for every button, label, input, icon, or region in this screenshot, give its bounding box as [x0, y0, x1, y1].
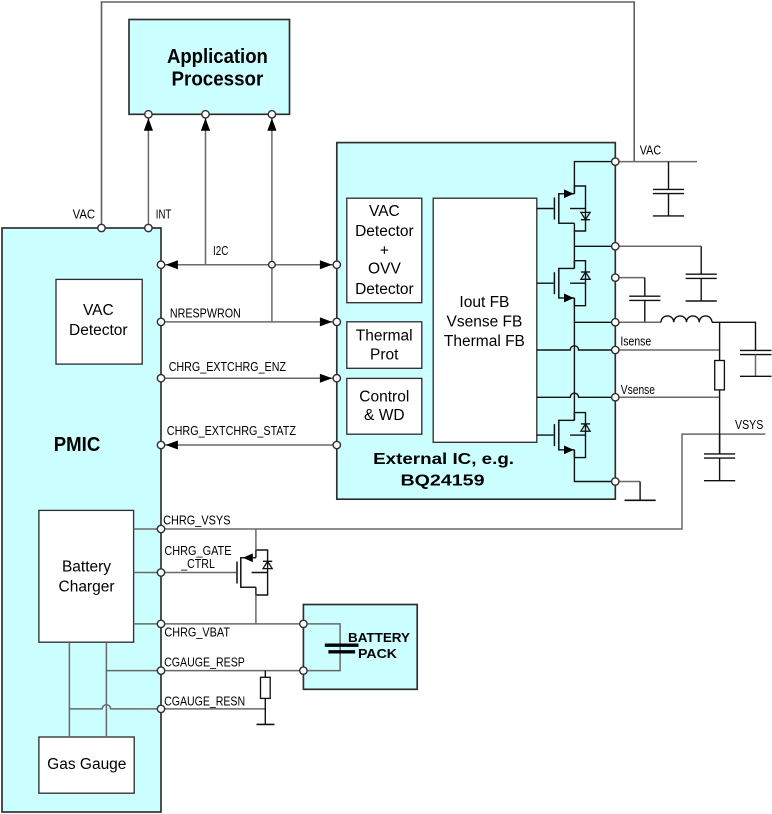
svg-text:CGAUGE_RESN: CGAUGE_RESN	[164, 694, 245, 708]
node STATZ PMIC	[157, 441, 164, 448]
wire AP third drop	[271, 119, 273, 322]
label PMIC	[54, 434, 101, 456]
label Thermal Prot	[356, 327, 413, 363]
wire charger to gauge B	[105, 642, 107, 737]
svg-text:NRESPWRON: NRESPWRON	[170, 306, 241, 320]
svg-text:CHRG_GATE: CHRG_GATE	[164, 544, 231, 558]
label VAC right	[640, 144, 661, 158]
svg-text:Isense: Isense	[620, 335, 651, 349]
svg-text:Prot: Prot	[370, 347, 399, 364]
capacitor C3 plates	[629, 296, 660, 322]
label Vsense	[621, 383, 655, 397]
arrow I2C left	[166, 260, 178, 269]
node CGAUGE_RESN	[157, 705, 164, 712]
wire M2-M3 vertical	[573, 322, 575, 420]
svg-text:+: +	[380, 242, 389, 259]
node I2C PMIC	[157, 261, 164, 268]
svg-text:Control: Control	[359, 389, 409, 406]
wire M1/M2 node stub	[574, 245, 611, 247]
wire node3 to C3	[615, 277, 645, 279]
label _CTRL	[180, 557, 215, 571]
svg-text:VAC: VAC	[73, 208, 96, 222]
node battery pack VBAT	[300, 620, 307, 627]
wire INT to AP	[147, 119, 149, 229]
arrow I2C right	[320, 260, 332, 269]
svg-text:Battery: Battery	[62, 559, 111, 576]
svg-text:CHRG_VSYS: CHRG_VSYS	[163, 513, 230, 527]
svg-text:PACK: PACK	[358, 646, 398, 661]
svg-text:VSYS: VSYS	[735, 418, 763, 432]
capacitor C1 on VAC	[653, 162, 684, 216]
wire battery pack loop	[303, 624, 340, 671]
wire SW node to inductor	[615, 321, 661, 323]
svg-text:Detector: Detector	[69, 322, 128, 339]
svg-text:Vsense: Vsense	[621, 383, 655, 397]
svg-text:Vsense FB: Vsense FB	[447, 313, 523, 330]
node CGAUGE_RESP	[157, 667, 164, 674]
svg-text:PMIC: PMIC	[54, 434, 101, 456]
capacitor C5 on VSYS	[704, 434, 735, 481]
label CHRG_EXTCHRG_STATZ	[167, 424, 297, 438]
node STATZ extIC	[333, 441, 340, 448]
wire C3 top lead	[644, 278, 646, 297]
svg-text:Gas Gauge: Gas Gauge	[47, 756, 126, 773]
control & WD box	[347, 378, 422, 434]
label BATTERY PACK	[348, 630, 410, 661]
wire CHRG_EXTCHRG_STATZ	[161, 444, 337, 446]
svg-text:I2C: I2C	[213, 244, 228, 258]
wire ground drop	[639, 482, 641, 501]
label VAC left	[73, 208, 96, 222]
wire CHRG_EXTCHRG_ENZ	[161, 377, 337, 379]
node ENZ PMIC	[157, 375, 164, 382]
junction I2C x third drop	[269, 261, 276, 268]
wire VAC top loop	[102, 2, 635, 228]
gas gauge box	[39, 737, 134, 793]
svg-text:Processor: Processor	[172, 69, 264, 91]
node SW	[612, 319, 619, 326]
VAC+OVV detector box	[347, 198, 422, 303]
label CHRG_GATE	[164, 544, 231, 558]
svg-text:INT: INT	[156, 208, 172, 222]
label VAC Detector (PMIC)	[69, 302, 128, 339]
svg-text:Detector: Detector	[355, 223, 414, 240]
node Isense	[612, 346, 619, 353]
arrow ENZ right	[320, 374, 332, 383]
wire Isense internal hop	[537, 346, 612, 350]
wire CGAUGE_RESN with hop	[69, 705, 265, 709]
resistor R2	[261, 677, 271, 698]
svg-text:Thermal: Thermal	[356, 327, 413, 344]
wire charger to gauge A	[68, 642, 70, 737]
node NRESPWRON PMIC	[157, 318, 164, 325]
label I2C	[213, 244, 228, 258]
battery symbol plate short	[328, 650, 355, 653]
label CHRG_EXTCHRG_ENZ	[169, 360, 287, 374]
node M1-M2	[612, 243, 619, 250]
label VSYS	[735, 418, 763, 432]
svg-text:CHRG_VBAT: CHRG_VBAT	[164, 626, 230, 640]
transistor M1 (top, VAC switch)	[537, 186, 590, 231]
wire Q1 source lead	[255, 595, 257, 624]
wire CHRG_VBAT	[134, 623, 304, 625]
svg-text:Detector: Detector	[355, 281, 414, 298]
node VAC extIC	[612, 158, 619, 165]
wire M3 source to node	[574, 450, 611, 482]
svg-text:CGAUGE_RESP: CGAUGE_RESP	[164, 656, 245, 670]
wire M2 source to SW node	[574, 298, 611, 322]
label Battery Charger	[59, 559, 115, 596]
wire output vertical	[719, 322, 721, 454]
svg-text:BQ24159: BQ24159	[401, 472, 485, 489]
wire I2C to AP	[205, 119, 207, 265]
node VAC on PMIC top	[98, 224, 105, 231]
Iout/Vsense/Thermal FB box	[433, 198, 537, 442]
node C3 tap	[612, 274, 619, 281]
svg-text:Application: Application	[167, 46, 268, 68]
node INT on PMIC top	[145, 224, 152, 231]
svg-text:BATTERY: BATTERY	[348, 630, 410, 645]
arrow STATZ left	[166, 441, 178, 450]
svg-text:Thermal FB: Thermal FB	[444, 333, 525, 350]
node CHRG_VSYS	[157, 525, 164, 532]
node NRESPWRON extIC	[333, 318, 340, 325]
label CGAUGE_RESP	[164, 656, 245, 670]
wire CGAUGE_RESP	[106, 670, 303, 672]
node AP pin2	[202, 111, 209, 118]
arrow INT up	[144, 118, 153, 131]
label Iout FB Vsense FB Thermal FB	[444, 294, 525, 350]
wire Isense external	[615, 349, 719, 351]
label VAC+OVV detector	[355, 203, 414, 298]
wire R2 bottom lead	[264, 698, 266, 724]
external IC BQ24159 block	[337, 143, 616, 500]
label Isense	[620, 335, 651, 349]
PMIC block	[2, 228, 161, 812]
label INT	[156, 208, 172, 222]
transistor M3 (bottom)	[537, 413, 590, 458]
transistor Q1 battery gate FET	[237, 550, 272, 595]
transistor M2 (middle)	[537, 261, 590, 306]
node AP pin3	[268, 111, 275, 118]
wire Q1 drain lead	[255, 529, 257, 550]
arrow I2C-AP up	[201, 118, 210, 131]
wire VAC rail right	[615, 161, 697, 163]
wire M1 source to M2 drain	[573, 231, 575, 268]
label CHRG_VBAT	[164, 626, 230, 640]
wire R2 top lead	[264, 671, 266, 678]
arrow NRESPWRON right	[320, 317, 332, 326]
node CHRG_VBAT	[157, 620, 164, 627]
wire CHRG_VSYS to VSYS rail	[134, 434, 766, 529]
label Control & WD	[359, 389, 409, 425]
battery charger box	[39, 510, 134, 642]
wire I2C bus	[161, 264, 337, 266]
wire Vsense external	[615, 396, 719, 398]
ground below R2	[257, 723, 275, 725]
svg-text:VAC: VAC	[640, 144, 661, 158]
wire M1 drain to VAC node	[574, 162, 611, 194]
wire Vsense internal hop	[537, 393, 612, 397]
application processor block	[129, 20, 290, 115]
resistor R1 sense	[715, 361, 725, 390]
wire node2 to C2	[615, 245, 701, 247]
capacitor C2	[686, 246, 717, 301]
node CHRG_GATE_CTRL	[157, 569, 164, 576]
svg-text:VAC: VAC	[369, 203, 400, 220]
svg-text:CHRG_EXTCHRG_ENZ: CHRG_EXTCHRG_ENZ	[169, 360, 287, 374]
svg-text:OVV: OVV	[368, 260, 401, 277]
label Gas Gauge	[47, 756, 126, 773]
node AP pin1	[145, 111, 152, 118]
svg-text:CHRG_EXTCHRG_STATZ: CHRG_EXTCHRG_STATZ	[167, 424, 297, 438]
VAC detector box (PMIC)	[56, 279, 142, 364]
arrow third up	[267, 118, 276, 131]
svg-text:External IC, e.g.: External IC, e.g.	[373, 451, 514, 468]
node Vsense	[612, 394, 619, 401]
thermal prot box	[347, 322, 422, 369]
battery symbol plate long	[325, 644, 359, 647]
node M3 source	[612, 478, 619, 485]
inductor L1	[661, 316, 712, 322]
node battery pack RESP	[300, 667, 307, 674]
label Application Processor	[167, 46, 268, 91]
wire M3 source ground stub	[615, 481, 640, 483]
svg-text:Charger: Charger	[59, 578, 115, 595]
node I2C extIC	[333, 261, 340, 268]
svg-text:Iout FB: Iout FB	[459, 294, 509, 311]
svg-text:VAC: VAC	[83, 302, 114, 319]
ground near external IC	[625, 499, 656, 501]
capacitor C4 (right edge)	[740, 350, 772, 376]
label External IC, e.g. BQ24159	[373, 451, 514, 489]
svg-text:& WD: & WD	[364, 407, 405, 424]
node ENZ extIC	[333, 375, 340, 382]
label CHRG_VSYS	[163, 513, 230, 527]
wire inductor to corner	[712, 322, 756, 350]
wire CHRG_GATE_CTRL	[134, 572, 237, 574]
label NRESPWRON	[170, 306, 241, 320]
wire NRESPWRON	[161, 321, 337, 323]
svg-text:_CTRL: _CTRL	[180, 557, 215, 571]
label CGAUGE_RESN	[164, 694, 245, 708]
battery pack block	[303, 605, 417, 690]
